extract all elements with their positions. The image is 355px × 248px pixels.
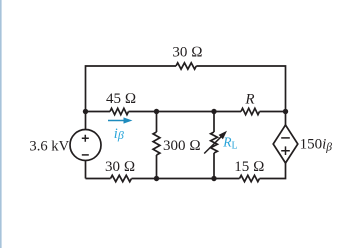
svg-text:15 Ω: 15 Ω bbox=[234, 159, 264, 175]
wire: voltage source to bottom rail bbox=[85, 161, 87, 179]
resistor RL (variable) bbox=[211, 132, 218, 153]
resistor R bbox=[241, 108, 260, 114]
svg-text:R: R bbox=[244, 92, 254, 108]
current arrow i_beta bbox=[108, 117, 133, 123]
plus sign of dependent source bbox=[281, 146, 290, 155]
junction node D bbox=[283, 109, 288, 114]
wire: resistor R to node D bbox=[260, 111, 286, 113]
svg-text:iβ: iβ bbox=[114, 126, 124, 142]
junction node C bbox=[211, 109, 216, 114]
wire: node C to resistor R bbox=[214, 111, 241, 113]
svg-text:300 Ω: 300 Ω bbox=[163, 138, 201, 154]
svg-text:30 Ω: 30 Ω bbox=[105, 159, 135, 175]
wire: bottom-left corner to resistor 30 ohm bottom bbox=[86, 178, 111, 180]
wire: 300 ohm to node E bbox=[156, 155, 158, 179]
resistor 300 ohm bbox=[153, 132, 160, 155]
junction node E bbox=[154, 176, 159, 181]
resistor 30 ohm (bottom) bbox=[111, 175, 132, 181]
resistor 30 ohm (top) bbox=[176, 63, 196, 69]
junction node F bbox=[211, 176, 216, 181]
wire: node E to node F bbox=[157, 178, 215, 180]
resistor 15 ohm bbox=[240, 175, 260, 181]
resistor 45 ohm bbox=[110, 108, 129, 114]
svg-text:3.6 kV: 3.6 kV bbox=[29, 138, 69, 154]
wire: node A down to voltage source bbox=[85, 112, 87, 130]
voltage source V1 3.6 kV bbox=[70, 130, 101, 161]
wire: node B down to resistor 300 ohm bbox=[156, 112, 158, 133]
wire: node D down to dependent source bbox=[285, 112, 287, 126]
wire: node C down to resistor RL bbox=[213, 112, 215, 133]
wire: node F to resistor 15 ohm bbox=[214, 178, 240, 180]
wire: node A to resistor 45 ohm bbox=[86, 111, 111, 113]
junction node B bbox=[154, 109, 159, 114]
wire: resistor RL to node F bbox=[213, 153, 215, 179]
junction node A bbox=[83, 109, 88, 114]
wire: node B to node C bbox=[157, 111, 215, 113]
dependent source 150i_beta (diamond) bbox=[273, 125, 298, 163]
plus sign of voltage source bbox=[82, 135, 89, 142]
minus sign of voltage source bbox=[82, 154, 89, 156]
wire: 15 ohm to bottom-right corner up to dependent source bbox=[260, 163, 286, 179]
wire: 30 ohm bottom to node E bbox=[132, 178, 157, 180]
svg-text:30 Ω: 30 Ω bbox=[172, 44, 202, 60]
minus sign of dependent source bbox=[281, 137, 290, 139]
svg-text:45 Ω: 45 Ω bbox=[106, 91, 136, 107]
wire: top rail right segment down to node D bbox=[196, 66, 285, 112]
wire: node A up left side to top rail, to resistor 30ohm bbox=[86, 66, 177, 112]
variable resistor RL arrow bbox=[204, 131, 227, 154]
wire: 45 ohm to node B bbox=[129, 111, 157, 113]
